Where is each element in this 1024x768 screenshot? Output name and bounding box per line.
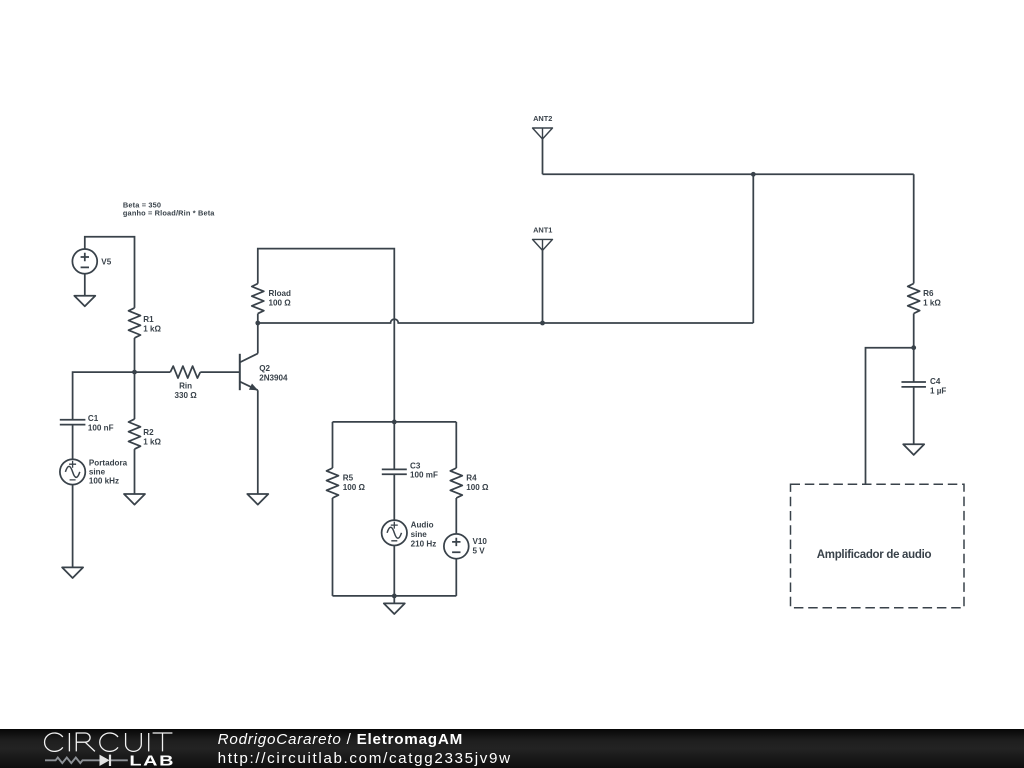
wire Rin to Q2 base — [200, 371, 240, 373]
svg-text:100 Ω: 100 Ω — [343, 483, 366, 492]
wire V10 bottom lead — [455, 559, 457, 596]
wire R6 bottom to node — [913, 314, 915, 348]
footer bar — [0, 729, 1024, 768]
capacitor C4 — [901, 382, 926, 387]
wire V5 top to R1 — [85, 237, 135, 308]
svg-text:RodrigoCarareto / EletromagAM: RodrigoCarareto / EletromagAM — [218, 731, 463, 748]
wire R4 top lead — [455, 422, 457, 468]
wire R5 top lead — [332, 422, 334, 468]
svg-text:http://circuitlab.com/catgg233: http://circuitlab.com/catgg2335jv9w — [218, 750, 512, 767]
svg-text:R6: R6 — [923, 289, 934, 298]
svg-text:LAB: LAB — [129, 752, 175, 768]
node ANT2 rail tap — [751, 172, 756, 177]
wire C4 to ground — [913, 387, 915, 444]
node junction base divider — [132, 370, 137, 375]
wire node to R2 — [134, 372, 136, 419]
antenna ANT1 — [533, 239, 553, 250]
svg-text:R2: R2 — [143, 428, 154, 437]
svg-text:100 kHz: 100 kHz — [89, 477, 119, 486]
svg-text:2N3904: 2N3904 — [259, 374, 288, 383]
node tank top — [392, 420, 397, 425]
svg-text:330 Ω: 330 Ω — [174, 391, 197, 400]
svg-text:ganho = Rload/Rin * Beta: ganho = Rload/Rin * Beta — [123, 209, 215, 218]
svg-text:ANT1: ANT1 — [533, 226, 552, 235]
svg-text:Rload: Rload — [269, 289, 292, 298]
svg-text:100 Ω: 100 Ω — [269, 298, 292, 307]
wire Portadora to ground — [72, 485, 74, 568]
antenna ANT2 — [533, 128, 553, 139]
ground below Portadora — [62, 567, 83, 578]
capacitor C3 — [382, 469, 407, 474]
ground below tank — [384, 603, 405, 614]
wire tank ground stem — [393, 596, 395, 604]
node tank bottom — [392, 594, 397, 599]
wire R2 to ground — [134, 449, 136, 494]
wire C3 top lead — [393, 422, 395, 470]
wire R4 to V10 — [455, 498, 457, 534]
svg-text:100 Ω: 100 Ω — [466, 483, 489, 492]
voltage source V5 — [72, 249, 97, 274]
ground below V5 — [74, 296, 95, 307]
wire R6 top lead — [913, 174, 915, 283]
amplifier box (dashed) — [791, 484, 965, 608]
wire node to Rin — [135, 371, 171, 373]
resistor R4 — [450, 468, 462, 498]
svg-text:sine: sine — [411, 530, 428, 539]
wire R5 bottom lead — [332, 498, 334, 596]
wire ANT1 stem — [542, 250, 544, 323]
svg-text:100 mF: 100 mF — [410, 471, 438, 480]
svg-text:R4: R4 — [466, 474, 477, 483]
wire Rload top rail — [258, 249, 395, 422]
wire Q2 emitter to ground — [257, 390, 259, 494]
wire Q2 collector — [257, 323, 259, 354]
svg-text:Audio: Audio — [411, 521, 434, 530]
source Audio sine 210 Hz — [382, 520, 407, 545]
wire Rload bottom to collector node — [257, 314, 259, 323]
wire Audio bottom lead — [393, 546, 395, 596]
svg-text:sine: sine — [89, 468, 106, 477]
wire ANT2 stem and top rail — [543, 139, 914, 174]
svg-text:1 kΩ: 1 kΩ — [923, 299, 941, 308]
resistor Rin — [170, 366, 200, 378]
svg-text:1 µF: 1 µF — [930, 387, 946, 396]
svg-text:1 kΩ: 1 kΩ — [143, 324, 161, 333]
transistor Q2 2N3904 — [240, 354, 258, 391]
resistor R5 — [327, 468, 339, 498]
node ANT1 tap — [540, 321, 545, 326]
wire node to C4 — [913, 348, 915, 382]
svg-text:R1: R1 — [143, 315, 154, 324]
svg-text:1 kΩ: 1 kΩ — [143, 437, 161, 446]
svg-text:Portadora: Portadora — [89, 459, 128, 468]
node collector — [255, 321, 260, 326]
source Portadora sine 100 kHz — [60, 459, 85, 484]
svg-text:C4: C4 — [930, 377, 941, 386]
ground below C4 — [903, 444, 924, 455]
svg-text:R5: R5 — [343, 474, 354, 483]
node R6/C4 — [911, 345, 916, 350]
wire C1 to Portadora — [72, 425, 74, 460]
svg-text:Amplificador de audio: Amplificador de audio — [817, 549, 932, 561]
svg-text:5 V: 5 V — [473, 546, 486, 555]
svg-text:100 nF: 100 nF — [88, 423, 114, 432]
wire collector node to antenna net with hop — [258, 319, 754, 323]
svg-text:Q2: Q2 — [259, 364, 270, 373]
resistor Rload — [252, 284, 264, 314]
wire V5 bottom — [84, 274, 86, 296]
ground below R2 — [124, 494, 145, 505]
wire C3 to Audio — [393, 474, 395, 520]
svg-text:V5: V5 — [101, 257, 111, 266]
svg-text:Rin: Rin — [179, 382, 192, 391]
svg-text:ANT2: ANT2 — [533, 114, 552, 123]
wire tank bottom rail — [333, 595, 457, 597]
svg-text:C1: C1 — [88, 414, 99, 423]
resistor R2 — [129, 419, 141, 449]
resistor R1 — [129, 308, 141, 338]
svg-text:V10: V10 — [473, 537, 488, 546]
capacitor C1 — [60, 420, 86, 425]
voltage source V10 — [444, 534, 469, 559]
wire right riser — [752, 174, 754, 323]
svg-text:C3: C3 — [410, 461, 421, 470]
svg-text:210 Hz: 210 Hz — [411, 539, 437, 548]
wire node to C1 — [73, 372, 135, 420]
wire node to amplifier box — [866, 348, 914, 485]
ground below Q2 emitter — [247, 494, 268, 505]
wire R1 bottom to node — [134, 338, 136, 372]
CircuitLab logo resistor-diode glyph — [45, 758, 128, 764]
CircuitLab logo CIRCUIT — [45, 733, 173, 751]
wire tank top rail — [333, 421, 457, 423]
resistor R6 — [908, 284, 920, 314]
